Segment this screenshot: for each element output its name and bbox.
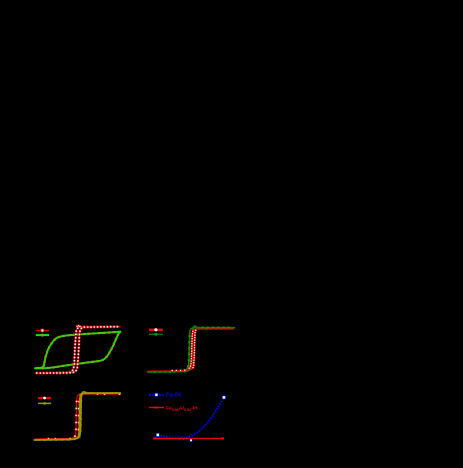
panel 2 white circle markers steep left (188, 330, 194, 369)
panel 4 legend: red square marker (155, 406, 157, 408)
panel 3 legend: white circle marker (43, 397, 46, 400)
panel 3 white circle markers upper-bottom (47, 438, 49, 440)
panel 3 legend: olive square marker (43, 402, 45, 404)
panel 2 red loop lower branch (148, 329, 234, 371)
panel 4 blue coercivity curve (Fe-Pt) (158, 397, 224, 437)
panel 1 olive square markers upper (37, 331, 115, 369)
panel 1 legend: olive square marker (41, 334, 44, 337)
panel 4 legend: red sample line (149, 407, 164, 409)
panel 2 legend: green sample line (149, 333, 163, 335)
panel 1 white circle markers lower (39, 326, 118, 375)
panel 1 red square loop lower branch (36, 327, 121, 374)
panel 2 green square markers bottom (154, 370, 186, 373)
panel 2 white circle markers bottom (171, 369, 186, 371)
panel 1 legend: green sample line (36, 334, 49, 336)
panel 4 blue middle data point (190, 439, 193, 442)
panel 2 green square markers top (202, 327, 230, 329)
panel 3 red loop lower branch (35, 394, 119, 439)
panel 3 red loop upper branch (35, 394, 119, 439)
svg-text:Fe-Pt: Fe-Pt (166, 393, 181, 399)
svg-text:Fe0.96Al0.04-Pt: Fe0.96Al0.04-Pt (166, 406, 198, 413)
panel 2 green square markers branch (187, 335, 191, 367)
panel 1 green sheared loop lower branch (35, 332, 120, 369)
panel 1 white circle markers upper (36, 325, 119, 374)
panel 3 white circle markers lower-sat (54, 438, 71, 440)
panel 2 red loop upper branch (148, 329, 233, 371)
panel 1 legend: red circle marker (41, 329, 44, 332)
panel 4 red small markers (153, 437, 223, 440)
panel 3 white circle markers upper-sat (80, 393, 98, 396)
panel 3 olive loop upper branch (34, 393, 120, 440)
panel 1 red square loop upper branch (36, 327, 121, 373)
panel 4 red flat line (FeAl-Pt) (154, 437, 222, 439)
panel 4 legend: blue sample line (149, 394, 164, 396)
panel 2 legend: white circle marker (154, 328, 157, 331)
panel 1 green sheared loop upper branch (35, 332, 120, 369)
panel 4 legend: white square marker blue border (155, 393, 158, 396)
panel 2 red dot markers top (205, 328, 231, 330)
panel 3 legend: olive sample line (38, 402, 51, 404)
panel 3 white circle markers lower-steep (77, 394, 81, 431)
panel 3 white circle markers lower-top (103, 393, 120, 395)
panel 2 legend: thick red sample line (149, 329, 163, 331)
panel 3 legend: thick red sample line (38, 397, 51, 399)
panel 1 olive square markers lower (42, 334, 119, 370)
panel 2 dark-green loop upper branch (148, 328, 235, 372)
panel 3 olive square markers upper (39, 392, 114, 441)
panel 4 blue data point squares (white filled) (156, 396, 225, 437)
panel 2 dark-green loop lower branch (148, 326, 200, 372)
panel 1 red loop top cap cluster (76, 325, 81, 328)
panel 1 legend: red sample line (36, 330, 49, 332)
panel 2 legend: green square marker (155, 333, 158, 336)
panel 3 white circle markers upper-steep (74, 400, 78, 437)
panel 3 olive square markers lower (43, 392, 116, 441)
panel 2 white circle markers steep right (192, 329, 197, 368)
panel 3 olive loop lower branch (34, 392, 120, 440)
